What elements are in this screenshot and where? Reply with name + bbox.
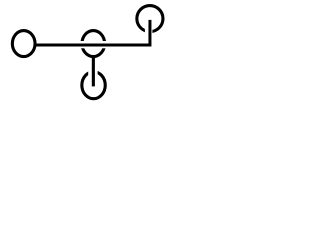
wire B-C (vertical stem) bbox=[92, 57, 95, 86]
node B (middle circle) bbox=[82, 31, 105, 57]
node A (left circle) bbox=[12, 31, 35, 57]
node D (top-right circle) bbox=[137, 6, 163, 32]
node C (bottom circle) bbox=[82, 72, 105, 99]
wire A-B-D (horizontal with elbow up) bbox=[35, 20, 150, 45]
wire halo cut through node B bbox=[78, 41, 108, 48]
wire halo cut through node D bottom bbox=[145, 24, 153, 40]
wire halo cut through node C top bbox=[88, 62, 97, 90]
